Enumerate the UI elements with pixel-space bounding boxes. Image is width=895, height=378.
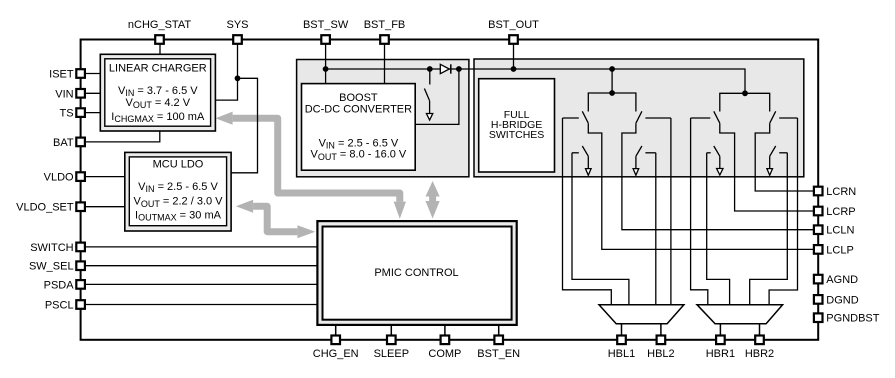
svg-text:BAT: BAT: [53, 137, 74, 149]
wire BST_OUT to rail: [513, 45, 515, 70]
switch Q5 upper right bridge: [691, 111, 720, 123]
pin TS: [60, 108, 85, 120]
svg-text:PSDA: PSDA: [44, 279, 75, 291]
wire Q6 stub down to trapezoid: [707, 153, 730, 305]
pin AGND: [814, 274, 858, 286]
pin BST_FB: [364, 19, 406, 44]
pin HBR1: [706, 336, 735, 361]
wire PSDA to PMIC: [86, 283, 318, 285]
svg-text:BST_EN: BST_EN: [477, 348, 520, 360]
diode D1: [440, 64, 451, 73]
pin nCHG_STAT: [128, 19, 191, 44]
wire Q7 stub down to trapezoid: [769, 118, 797, 305]
pin VLDO_SET: [16, 202, 85, 214]
wire Q1 output to LCLP: [588, 123, 813, 249]
switch Q7 upper right bridge right: [770, 111, 798, 123]
switch Q3 upper left bridge right: [636, 111, 671, 123]
arrowhead into linear charger: [216, 112, 233, 125]
wire Q2 stub down to trapezoid: [572, 153, 629, 305]
wire BST_FB into boost block: [384, 45, 386, 84]
svg-text:PSCL: PSCL: [45, 300, 74, 312]
wire CHG_EN: [335, 320, 337, 335]
pin HBL1: [608, 336, 636, 361]
wire left tent: [588, 93, 636, 112]
svg-text:HBL2: HBL2: [647, 348, 675, 360]
IC boundary: [81, 40, 819, 340]
wire BAT to linear charger bottom: [86, 131, 160, 142]
wire Q5 stub down to trapezoid: [691, 118, 708, 305]
wire SWITCH to PMIC: [86, 246, 318, 248]
pin SWITCH: [30, 242, 85, 254]
wire COMP: [444, 320, 446, 335]
svg-text:PGNDBST: PGNDBST: [826, 313, 879, 325]
wire Q3 stub down to trapezoid: [670, 118, 672, 305]
pin HBL2: [647, 336, 675, 361]
pin HBR2: [745, 336, 774, 361]
wire BST_SW into boost block: [325, 45, 327, 84]
junction rail left tent: [609, 66, 615, 72]
arrowhead into PMIC control left: [297, 225, 315, 238]
svg-text:AGND: AGND: [826, 274, 858, 286]
h-bridge shaded region: [474, 59, 804, 177]
block MCU LDO: [125, 152, 231, 231]
wire HBL1: [621, 324, 623, 335]
pin LCLP: [814, 244, 854, 256]
wire Q8 stub down to trapezoid: [750, 153, 788, 305]
svg-text:VIN: VIN: [55, 88, 73, 100]
junction left tent: [609, 90, 615, 96]
wire TS to linear charger: [86, 112, 105, 114]
wire boost output rail: [326, 69, 745, 93]
svg-text:MCU LDO: MCU LDO: [153, 159, 204, 171]
svg-text:LCLN: LCLN: [826, 225, 854, 237]
pin PSCL: [45, 300, 85, 312]
junction right tent: [742, 90, 748, 96]
wire VIN to linear charger: [86, 92, 105, 94]
control arrow PMIC to linear charger: [233, 118, 400, 201]
svg-text:VLDO_SET: VLDO_SET: [16, 202, 74, 214]
svg-text:TS: TS: [60, 108, 74, 120]
pin ISET: [49, 69, 85, 81]
switch Q6 lower right bridge: [707, 146, 723, 175]
pin DGND: [814, 294, 859, 306]
arrowhead into MCU LDO: [236, 200, 253, 213]
svg-text:SYS: SYS: [226, 19, 248, 31]
svg-text:LINEAR CHARGER: LINEAR CHARGER: [109, 63, 207, 75]
block PMIC control: [317, 221, 516, 325]
switch Q8 lower right bridge right: [767, 146, 787, 175]
wire Q4 stub down to trapezoid: [655, 153, 657, 305]
svg-text:HBR1: HBR1: [706, 348, 735, 360]
control arrow PMIC to boost (double headed): [429, 195, 436, 202]
wire Q7 output to LCRN: [755, 123, 813, 191]
wire SLEEP: [390, 320, 392, 335]
svg-text:VLDO: VLDO: [44, 172, 74, 184]
wire Q5 output to LCRP: [720, 123, 813, 211]
svg-text:PMIC CONTROL: PMIC CONTROL: [374, 267, 458, 279]
wire HBL2: [660, 324, 662, 335]
switch Q1 upper left bridge: [563, 111, 589, 123]
svg-text:BOOST: BOOST: [339, 92, 378, 104]
arrowhead into PMIC control top: [394, 202, 406, 219]
mux trapezoid right: [697, 305, 783, 324]
pin VIN: [55, 88, 85, 100]
pin LCRN: [814, 186, 856, 198]
wire PSCL to PMIC: [86, 304, 318, 306]
svg-text:LCRN: LCRN: [826, 186, 856, 198]
pin SLEEP: [374, 336, 409, 361]
pin LCRP: [814, 206, 856, 218]
pin BST_SW: [303, 19, 349, 44]
svg-text:BST_OUT: BST_OUT: [488, 19, 539, 31]
wire BST_EN: [498, 320, 500, 335]
svg-text:LCRP: LCRP: [826, 206, 855, 218]
junction diode cathode: [456, 66, 462, 72]
block boost dc-dc converter: [302, 84, 416, 171]
junction BST_OUT: [511, 66, 517, 72]
wire SYS to linear charger right: [215, 45, 237, 101]
block linear charger: [100, 54, 215, 131]
wire HBR1: [719, 324, 721, 335]
svg-text:SWITCH: SWITCH: [30, 242, 73, 254]
pin COMP: [428, 336, 461, 361]
switch Q4 lower left bridge right: [633, 146, 656, 175]
wire Q3 output to LCLN: [622, 123, 813, 230]
wire nCHG_STAT to linear charger top: [159, 45, 161, 55]
block full h-bridge switches: [479, 79, 555, 172]
pin BAT: [53, 137, 85, 149]
svg-text:ISET: ISET: [49, 69, 74, 81]
arrowhead down to PMIC control: [426, 201, 440, 219]
wire HBR2: [759, 324, 761, 335]
wire left tent feed: [611, 69, 613, 93]
arrowhead up to boost region: [426, 181, 440, 197]
svg-text:SW_SEL: SW_SEL: [29, 261, 74, 273]
svg-text:COMP: COMP: [428, 348, 461, 360]
pin SYS: [226, 19, 248, 44]
wire VLDO_SET to MCU LDO: [86, 206, 125, 208]
svg-text:SLEEP: SLEEP: [374, 348, 409, 360]
svg-text:BST_FB: BST_FB: [364, 19, 406, 31]
mux trapezoid left: [599, 305, 684, 324]
svg-text:nCHG_STAT: nCHG_STAT: [128, 19, 191, 31]
wire SW_SEL to PMIC: [86, 265, 318, 267]
pin PGNDBST: [814, 313, 880, 325]
boost converter shaded region: [297, 60, 469, 177]
svg-text:SWITCHES: SWITCHES: [489, 129, 544, 141]
control arrow PMIC to MCU LDO: [253, 206, 297, 231]
junction SYS: [235, 75, 241, 81]
pin BST_EN: [477, 336, 520, 361]
wire SYS branch to MCU LDO right: [231, 78, 257, 173]
wire VLDO to MCU LDO: [86, 176, 125, 178]
pin BST_OUT: [488, 19, 539, 44]
pin PSDA: [44, 279, 85, 291]
svg-text:HBL1: HBL1: [608, 348, 636, 360]
junction boost switch top: [427, 66, 433, 72]
boost switch S1: [424, 69, 432, 120]
wire right tent: [720, 93, 770, 111]
pin VLDO: [44, 172, 85, 184]
svg-text:DC-DC CONVERTER: DC-DC CONVERTER: [305, 103, 412, 115]
pin SW_SEL: [29, 261, 85, 273]
svg-text:CHG_EN: CHG_EN: [313, 348, 359, 360]
svg-text:LCLP: LCLP: [826, 244, 854, 256]
svg-text:HBR2: HBR2: [745, 348, 774, 360]
svg-text:DGND: DGND: [826, 294, 858, 306]
wire boost switch return to boost block: [415, 69, 459, 124]
pin CHG_EN: [313, 336, 359, 361]
svg-text:BST_SW: BST_SW: [303, 19, 349, 31]
switch Q2 lower left bridge: [572, 146, 591, 175]
junction BST_SW rail: [323, 66, 329, 72]
wire ISET to linear charger: [86, 73, 105, 75]
pin LCLN: [814, 225, 855, 237]
wire Q1 gate stub down to trapezoid: [563, 118, 612, 305]
